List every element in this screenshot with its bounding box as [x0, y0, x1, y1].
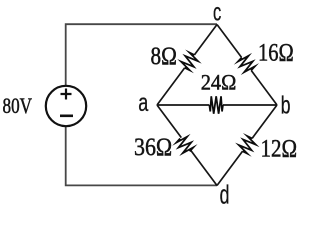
wire: source top terminal to node c (left vertical + top horizontal)	[66, 24, 217, 86]
resistor 24ohm (branch a-b)	[157, 96, 277, 113]
resistor 16ohm (branch c-b)	[212, 20, 283, 109]
wire: source bottom terminal to node d (left vertical + bottom horizontal)	[66, 126, 217, 186]
svg-text:16Ω: 16Ω	[258, 39, 294, 66]
resistor 12ohm (branch b-d)	[212, 101, 283, 190]
resistor 8ohm (branch c-a)	[152, 20, 223, 109]
svg-text:8Ω: 8Ω	[151, 42, 177, 70]
voltage source V1 80V circle	[46, 86, 86, 126]
resistor 36ohm (branch a-d)	[150, 102, 221, 191]
svg-text:36Ω: 36Ω	[134, 133, 172, 161]
svg-text:80V: 80V	[3, 94, 33, 119]
svg-text:d: d	[220, 180, 230, 209]
svg-text:c: c	[213, 0, 222, 26]
svg-text:12Ω: 12Ω	[261, 134, 298, 162]
svg-text:a: a	[138, 88, 149, 117]
voltage source minus terminal	[60, 115, 73, 118]
svg-text:24Ω: 24Ω	[201, 70, 237, 95]
voltage source plus terminal	[61, 89, 72, 100]
svg-text:b: b	[281, 91, 291, 120]
